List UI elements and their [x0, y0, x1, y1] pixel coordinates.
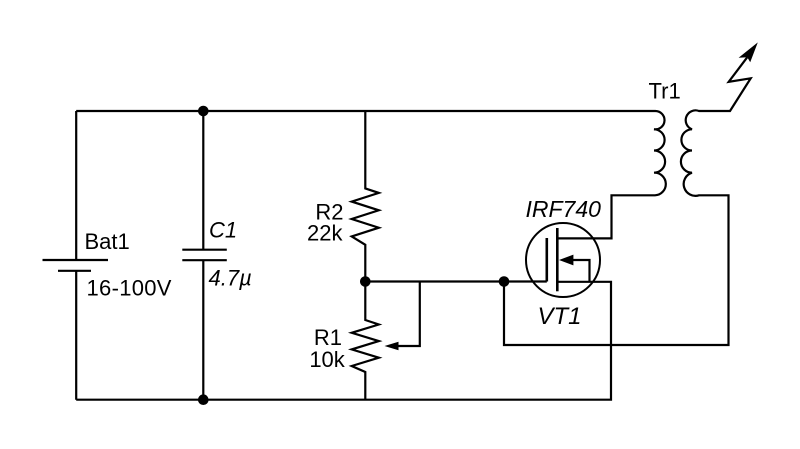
svg-text:Tr1: Tr1: [649, 79, 681, 104]
svg-text:4.7µ: 4.7µ: [209, 265, 252, 290]
svg-text:16-100V: 16-100V: [87, 276, 172, 301]
svg-text:VT1: VT1: [538, 303, 582, 330]
svg-text:22k: 22k: [307, 221, 343, 246]
svg-text:10k: 10k: [309, 347, 345, 372]
svg-text:Bat1: Bat1: [85, 229, 130, 254]
svg-text:C1: C1: [209, 218, 237, 243]
svg-text:IRF740: IRF740: [526, 196, 602, 222]
